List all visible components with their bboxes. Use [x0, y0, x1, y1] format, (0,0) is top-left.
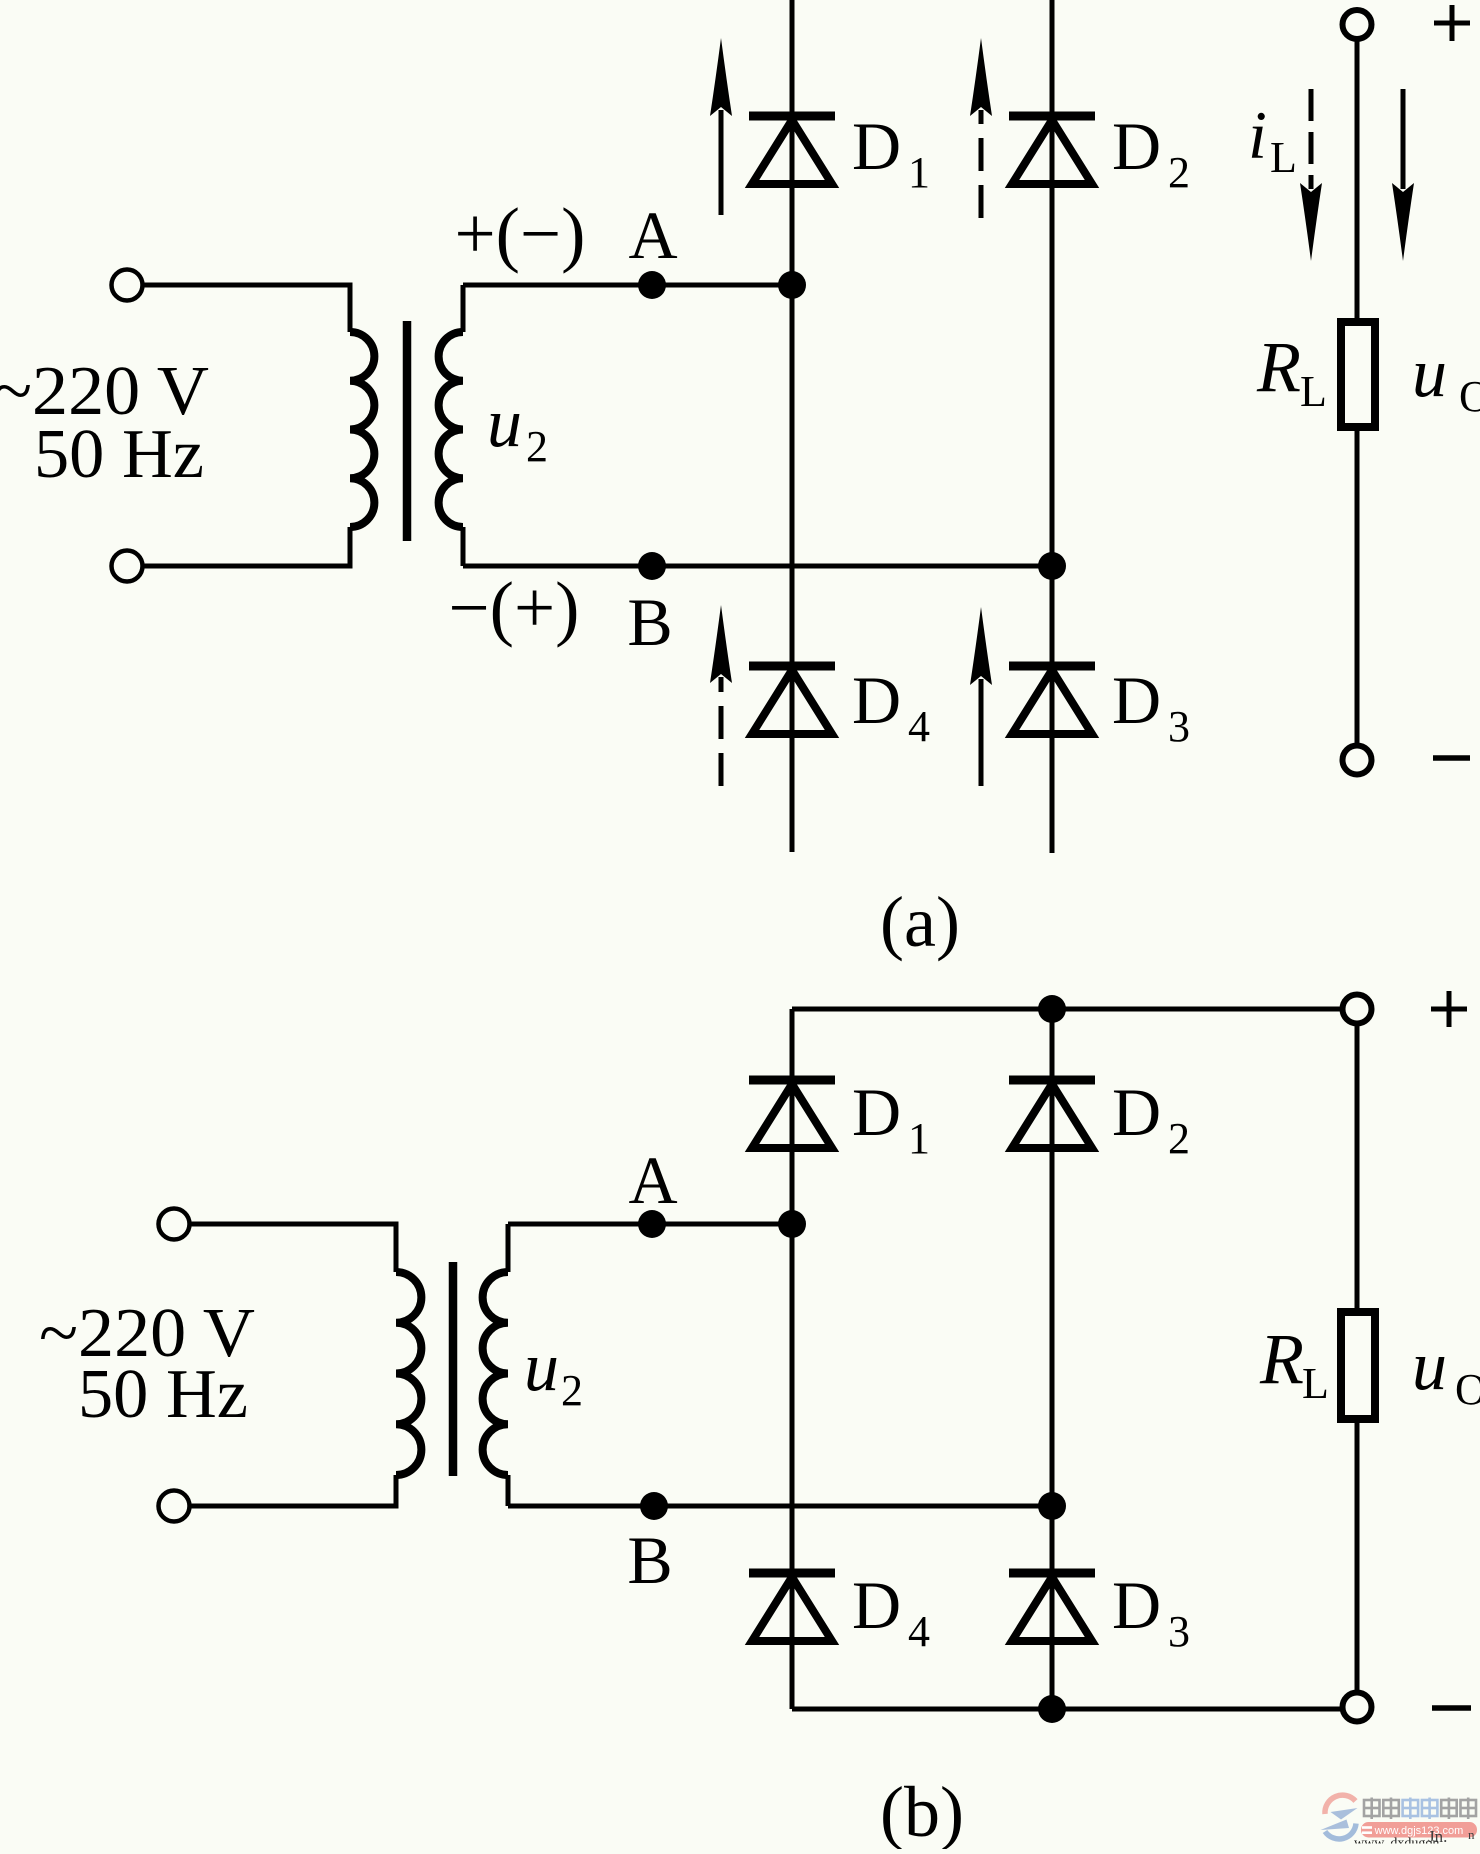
svg-text:(a): (a): [880, 882, 960, 962]
svg-text:R: R: [1259, 1319, 1304, 1399]
svg-text:1: 1: [908, 148, 930, 197]
svg-text:50 Hz: 50 Hz: [78, 1356, 248, 1433]
svg-text:L: L: [1270, 133, 1297, 182]
svg-text:(b): (b): [880, 1772, 964, 1849]
svg-text:D: D: [852, 1074, 901, 1150]
svg-text:i: i: [1248, 97, 1267, 173]
svg-text:B: B: [627, 584, 672, 660]
svg-text:1: 1: [908, 1114, 930, 1163]
svg-text:3: 3: [1168, 1607, 1190, 1656]
svg-text:3: 3: [1168, 702, 1190, 751]
svg-text:u: u: [524, 1329, 559, 1406]
svg-text:O: O: [1455, 1365, 1480, 1414]
svg-text:2: 2: [1168, 1114, 1190, 1163]
svg-text:L: L: [1300, 367, 1327, 416]
svg-text:A: A: [628, 1142, 677, 1218]
svg-text:B: B: [627, 1522, 672, 1598]
svg-text:D: D: [852, 662, 901, 738]
svg-text:D: D: [1112, 108, 1161, 184]
svg-text:A: A: [628, 197, 677, 273]
svg-text:R: R: [1256, 327, 1301, 407]
svg-text:D: D: [1112, 1567, 1161, 1643]
svg-text:4: 4: [908, 1607, 930, 1656]
svg-text:D: D: [852, 1567, 901, 1643]
svg-text:4: 4: [908, 702, 930, 751]
svg-text:u: u: [487, 385, 522, 462]
svg-text:2: 2: [1168, 148, 1190, 197]
svg-text:L: L: [1302, 1359, 1329, 1408]
svg-text:−(+): −(+): [449, 567, 580, 648]
svg-text:O: O: [1459, 372, 1480, 421]
svg-text:n: n: [1468, 1827, 1475, 1842]
svg-text:D: D: [852, 108, 901, 184]
svg-text:D: D: [1112, 662, 1161, 738]
svg-text:2: 2: [526, 422, 548, 471]
svg-text:+(−): +(−): [455, 193, 586, 274]
svg-text:2: 2: [561, 1366, 583, 1415]
svg-text:Jn.: Jn.: [1428, 1827, 1447, 1846]
svg-text:u: u: [1412, 335, 1447, 412]
svg-text:u: u: [1412, 1328, 1447, 1405]
svg-text:D: D: [1112, 1074, 1161, 1150]
svg-text:www.dgjs123.com: www.dgjs123.com: [1374, 1825, 1464, 1837]
svg-text:50 Hz: 50 Hz: [34, 416, 204, 493]
